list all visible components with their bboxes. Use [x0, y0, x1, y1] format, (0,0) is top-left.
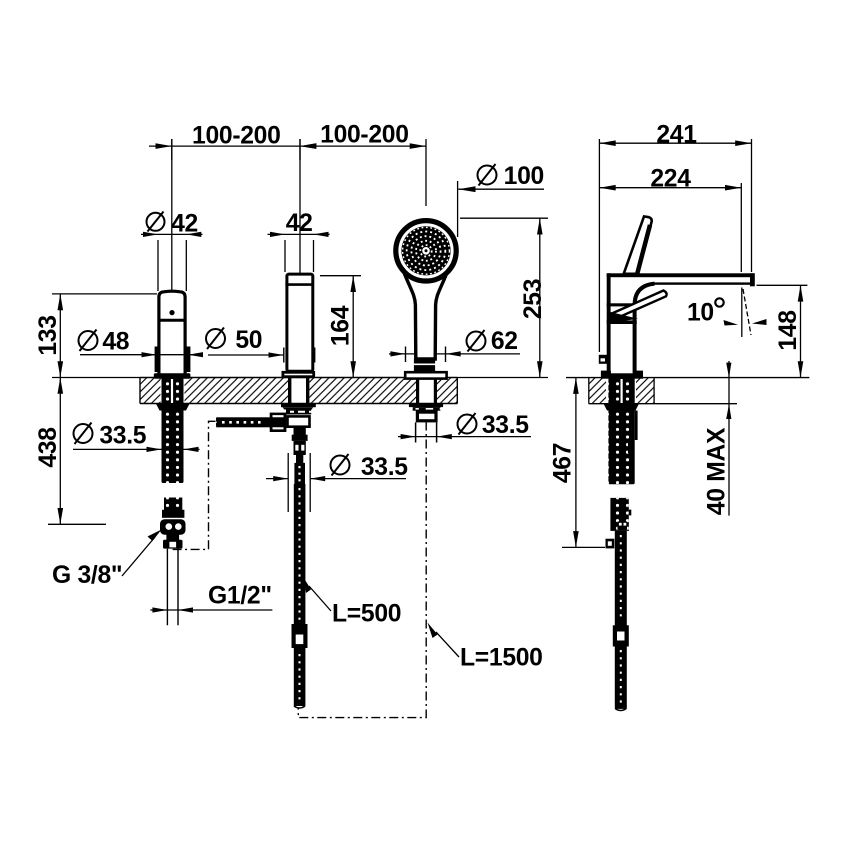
body inner corner arc and right edge [635, 284, 655, 374]
dim 42 diverter [268, 210, 330, 272]
dim 224 [599, 165, 741, 272]
svg-text:42: 42 [286, 210, 313, 237]
handshower hose horizontal from elbow [214, 413, 287, 432]
base plate [601, 371, 611, 375]
mixer hose connector below [606, 498, 632, 549]
mixer threaded shank below deck [604, 378, 639, 484]
svg-text:L=500: L=500 [332, 601, 401, 628]
hose hex nut [270, 413, 287, 432]
dim 133 left [35, 294, 157, 378]
dim diameter 33.5 column1 [73, 423, 200, 453]
dim 164 [320, 276, 361, 378]
svg-text:224: 224 [650, 165, 691, 192]
spout lip [750, 273, 755, 286]
dim 10 degrees [687, 288, 767, 338]
diverter shank walls in deck [288, 378, 309, 404]
threaded shank column 1 through deck [156, 378, 190, 483]
svg-text:50: 50 [235, 327, 262, 354]
svg-text:33.5: 33.5 [99, 423, 146, 450]
body front line [607, 303, 637, 306]
basin mixer body (right view) [599, 216, 755, 378]
dim 241 [599, 122, 751, 352]
dim diameter 48 [79, 329, 204, 358]
dim 148 [757, 285, 808, 377]
lever blade [613, 291, 667, 319]
svg-text:33.5: 33.5 [482, 412, 529, 439]
svg-text:253: 253 [520, 279, 547, 319]
svg-text:467: 467 [550, 443, 577, 483]
hose routing centerline dash-dot L=1500 [298, 422, 426, 718]
svg-text:10: 10 [687, 300, 714, 327]
diverter cylinder (column 2) [283, 274, 314, 377]
nut under deck col1 [156, 404, 190, 411]
diverter base flange [283, 372, 314, 376]
spout arm bottom line [654, 282, 751, 284]
svg-text:148: 148 [775, 310, 802, 350]
svg-text:438: 438 [35, 427, 62, 467]
spout base flange [154, 373, 191, 379]
dim diameter 50 [206, 327, 315, 363]
dim diameter 42 spout [141, 210, 203, 291]
svg-text:48: 48 [102, 329, 129, 356]
svg-text:164: 164 [328, 305, 355, 346]
deck left view hatched slab [140, 378, 457, 404]
svg-text:G 3/8": G 3/8" [52, 562, 122, 589]
svg-text:100-200: 100-200 [320, 122, 409, 149]
svg-text:100-200: 100-200 [192, 123, 281, 150]
spout arm top line [607, 273, 755, 277]
svg-text:33.5: 33.5 [361, 454, 408, 481]
diverter under-deck flange and nut [281, 404, 316, 415]
wire: center line column1 from dim to spout [171, 139, 173, 293]
handshower head (column 3) [396, 221, 456, 281]
handshower pipe tails below nut [416, 422, 437, 442]
svg-text:62: 62 [491, 328, 518, 355]
dim 100-200 (diverter to handshower) [300, 122, 426, 149]
svg-text:L=1500: L=1500 [460, 645, 543, 672]
body left edge [607, 273, 611, 375]
dim diameter 100 handshower head [458, 163, 544, 237]
label L=1500 with leader [428, 623, 543, 672]
diverter elbow block [288, 416, 310, 426]
dim diameter 33.5 column2 [266, 453, 408, 512]
dim 438 left [35, 378, 106, 525]
handle collar [414, 359, 435, 373]
handshower shank walls in deck [416, 379, 437, 404]
label G 3/8" with leader [52, 530, 162, 590]
spout aerator ring bars [155, 347, 160, 373]
svg-text:100: 100 [504, 163, 544, 190]
dim 40 MAX [704, 361, 732, 516]
dim diameter 33.5 column3 [398, 412, 531, 439]
dim 100-200 (spout to diverter) line [149, 123, 426, 160]
handshower base plate [405, 372, 446, 378]
label L=500 with leader [304, 578, 402, 628]
cartridge line [607, 320, 637, 324]
lever wedge [611, 312, 639, 323]
joystick handle [624, 216, 652, 273]
wire: center line column3 handshower [425, 139, 427, 206]
svg-text:40 MAX: 40 MAX [704, 427, 731, 515]
dim 467 [550, 378, 606, 548]
G 3/8 connector assembly column 1 [160, 498, 186, 549]
svg-text:241: 241 [656, 122, 697, 149]
spout body (column 1) [154, 291, 191, 379]
side outlet block [606, 539, 615, 549]
svg-text:G1/2": G1/2" [208, 583, 272, 610]
handshower under-deck flange and nut [409, 403, 443, 421]
deck right view [566, 378, 809, 404]
handshower handle [402, 266, 450, 359]
dim 253 [457, 218, 548, 377]
fixing clip left [599, 355, 607, 364]
hand shower flexible hose L=500 vertical [292, 484, 308, 708]
diverter lower stack [292, 428, 308, 484]
G1/2 pipe tails column 1 [167, 549, 178, 626]
svg-text:133: 133 [35, 315, 62, 355]
dim diameter 62 [389, 328, 520, 362]
dim G1/2" [150, 583, 272, 613]
mixer flexible hose vertical [613, 531, 629, 711]
hose routing dash-dot from diverter hose end [173, 421, 216, 549]
wire: center line column2 [299, 139, 301, 273]
